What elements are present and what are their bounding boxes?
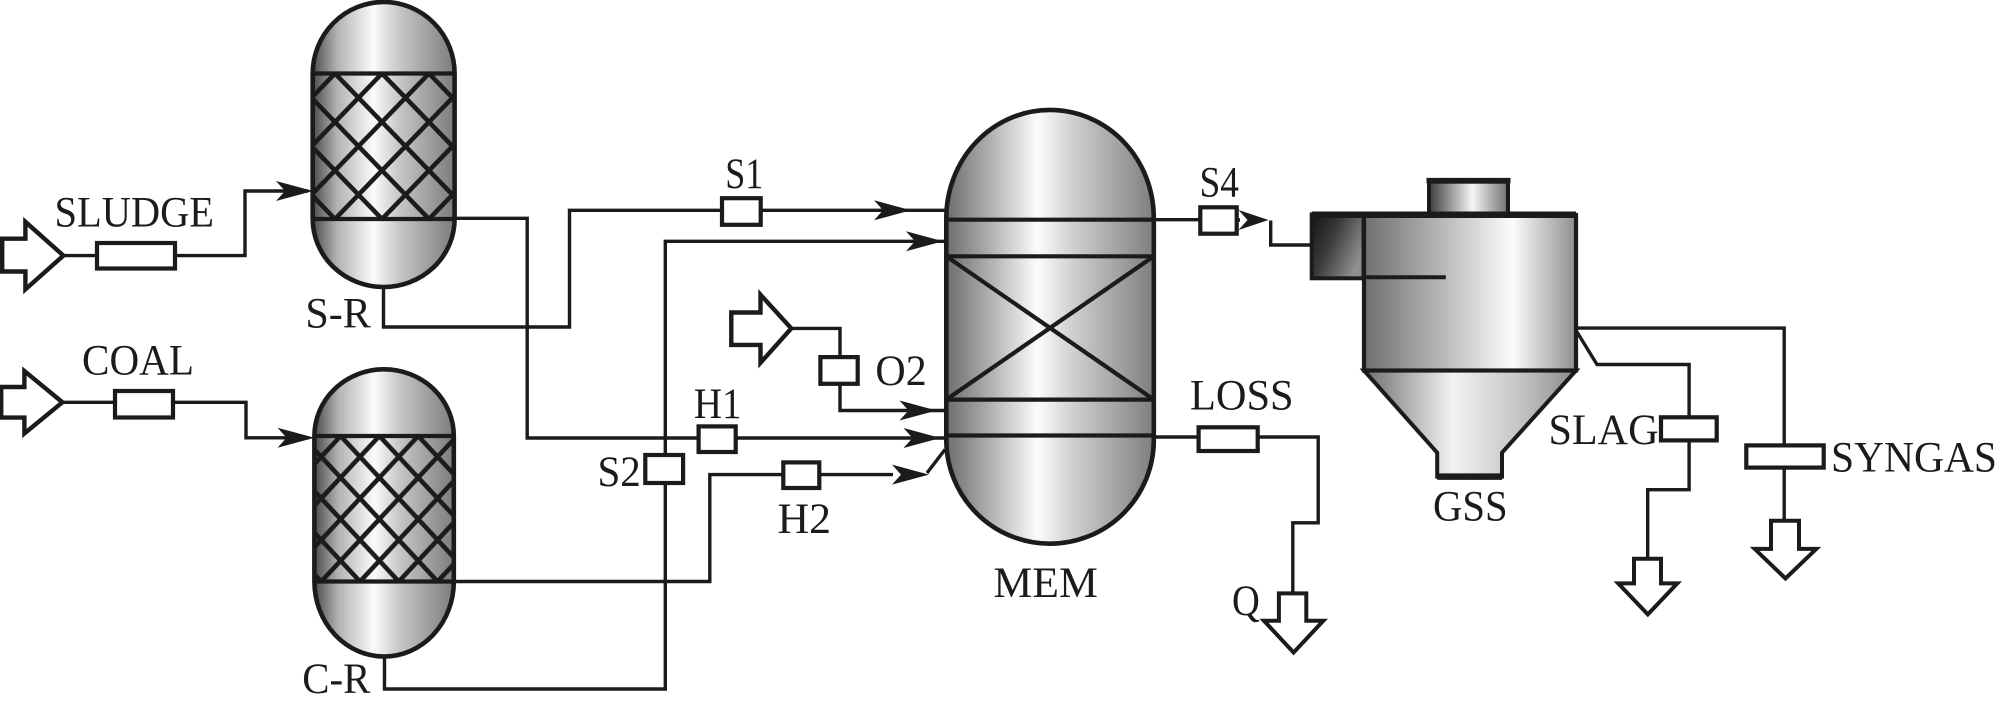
feed arrow O2	[731, 295, 791, 363]
feed arrow COAL	[1, 371, 62, 434]
wire H2 diagonal stub into MEM	[927, 450, 945, 474]
arrowhead S2 into MEM	[906, 231, 943, 251]
stream box LOSS	[1199, 427, 1258, 451]
wire S-R hatch outlet to H1 line	[452, 218, 945, 438]
wire SLAG stream	[1577, 332, 1689, 559]
svg-text:SYNGAS: SYNGAS	[1831, 435, 1997, 482]
arrowhead S1 into MEM	[874, 200, 911, 220]
svg-text:H2: H2	[778, 496, 832, 543]
wire O2 feed line	[791, 328, 945, 410]
svg-text:C-R: C-R	[302, 656, 370, 703]
vessel MEM	[946, 110, 1154, 544]
svg-text:GSS: GSS	[1433, 484, 1508, 531]
svg-text:H1: H1	[694, 381, 742, 428]
wire LOSS stream	[1154, 437, 1318, 593]
stream box H2	[783, 462, 819, 488]
feed arrow SLUDGE	[2, 222, 63, 290]
svg-text:S2: S2	[598, 449, 641, 496]
stream box S1	[722, 198, 761, 225]
svg-text:LOSS: LOSS	[1190, 373, 1294, 420]
stream box H1	[699, 426, 736, 452]
wire C-R bottom to S2 line	[385, 241, 946, 689]
stream box SYNGAS	[1746, 445, 1823, 467]
stream box SLAG	[1661, 417, 1717, 440]
arrowhead O2 into MEM	[900, 401, 937, 421]
wire SLUDGE stream	[63, 191, 308, 256]
separator GSS	[1312, 181, 1576, 477]
GSS cone and spout	[1364, 371, 1576, 477]
stream box O2	[820, 357, 857, 384]
svg-text:MEM: MEM	[993, 560, 1098, 607]
wire SYNGAS stream	[1576, 328, 1784, 521]
output arrow Q	[1264, 593, 1323, 652]
GSS vortex finder line	[1364, 275, 1446, 279]
svg-text:S1: S1	[725, 151, 763, 198]
stream box S2	[645, 455, 683, 483]
stream box COAL	[115, 391, 173, 418]
GSS body	[1364, 215, 1576, 371]
arrowhead S4	[1239, 210, 1269, 230]
svg-text:S-R: S-R	[305, 291, 371, 338]
svg-text:COAL: COAL	[82, 337, 194, 384]
wire COAL stream	[62, 402, 309, 438]
svg-text:SLAG: SLAG	[1549, 407, 1659, 454]
svg-text:O2: O2	[875, 348, 926, 395]
wire C-R hatch outlet to H2 line	[452, 475, 893, 582]
stream box SLUDGE	[97, 243, 175, 269]
GSS top nozzle	[1429, 182, 1508, 216]
svg-text:S4: S4	[1200, 160, 1240, 207]
arrowhead into C-R	[278, 428, 315, 448]
stream box S4	[1200, 207, 1236, 233]
wire S4 stream	[1154, 220, 1312, 245]
arrowhead H2	[892, 465, 929, 485]
reactor S-R	[313, 2, 455, 287]
output arrow SYNGAS	[1755, 521, 1817, 579]
reactor C-R	[314, 369, 453, 656]
svg-text:Q: Q	[1232, 578, 1260, 625]
GSS inlet duct	[1312, 215, 1364, 279]
arrowhead H1 into MEM	[904, 428, 941, 448]
arrowhead into S-R	[276, 181, 313, 201]
wire S-R bottom to S1 line	[384, 210, 946, 327]
output arrow SLAG	[1618, 559, 1677, 615]
svg-text:SLUDGE: SLUDGE	[55, 190, 215, 237]
